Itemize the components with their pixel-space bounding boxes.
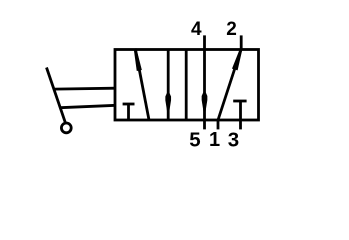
svg-text:4: 4 — [191, 19, 202, 40]
svg-text:5: 5 — [189, 129, 200, 152]
svg-text:1: 1 — [209, 129, 220, 151]
svg-text:2: 2 — [226, 19, 237, 40]
svg-text:3: 3 — [228, 129, 239, 152]
